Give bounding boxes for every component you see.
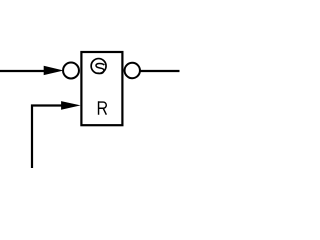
inversion bubble (output): [125, 63, 140, 78]
label R: [99, 101, 107, 114]
label S: [96, 64, 104, 74]
wire (R input, from bottom edge with elbow): [32, 106, 63, 169]
circled S (set-dominant symbol): [91, 59, 106, 74]
wire (output, to right): [140, 70, 179, 72]
arrowhead (S input): [44, 66, 64, 75]
wire (S input, from left edge): [0, 70, 46, 72]
SR latch box: [81, 52, 122, 125]
arrowhead (R input): [61, 101, 81, 110]
inversion bubble (S input): [63, 63, 79, 79]
